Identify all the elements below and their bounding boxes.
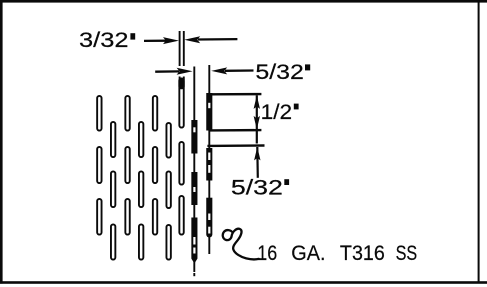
svg-text:GA.: GA. [291,242,325,265]
svg-text:5/32: 5/32 [231,177,283,200]
svg-text:3/32: 3/32 [79,29,129,52]
svg-text:SS: SS [396,242,418,265]
svg-text:T316: T316 [340,242,385,265]
svg-text:16: 16 [257,242,277,265]
svg-text:1/2: 1/2 [261,101,293,124]
svg-text:5/32: 5/32 [255,61,304,84]
